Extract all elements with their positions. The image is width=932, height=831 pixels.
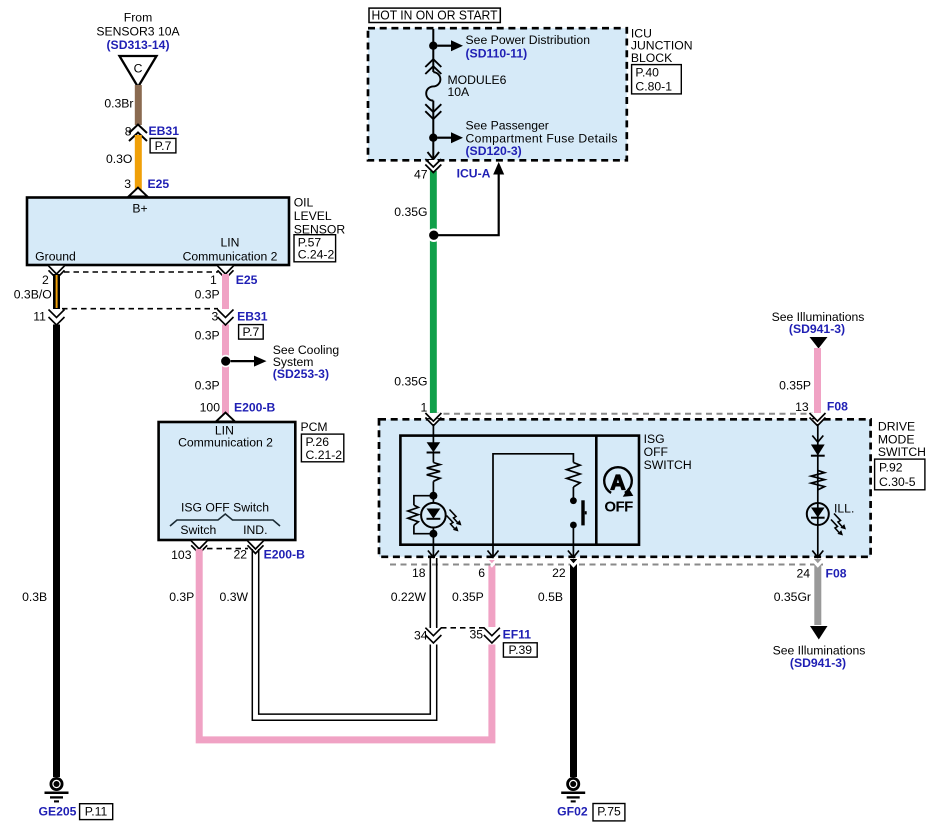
arrow down at ICU exit xyxy=(428,152,440,159)
dashed connector line pins 11-3 xyxy=(62,308,218,310)
wire 0.22W white (pin 18 to conn 34) xyxy=(391,558,437,628)
arrow See Passenger Compartment Fuse Details xyxy=(437,119,617,159)
wire inside ICU block xyxy=(432,29,434,72)
svg-text:GF02: GF02 xyxy=(557,805,588,819)
connector pin 1 chevron (E25) xyxy=(210,266,258,287)
svg-text:(SD120-3): (SD120-3) xyxy=(466,144,522,158)
connector pin 22 chevron xyxy=(234,541,306,562)
connector triangle C xyxy=(120,56,157,87)
branch arrow up into ICU block xyxy=(438,162,504,235)
svg-text:18: 18 xyxy=(412,566,426,580)
wire 0.3Br brown xyxy=(135,85,142,125)
svg-text:6: 6 xyxy=(478,566,485,580)
svg-text:13: 13 xyxy=(795,400,809,414)
svg-text:C.80-1: C.80-1 xyxy=(635,80,672,94)
svg-text:1: 1 xyxy=(210,273,217,287)
label ISG OFF SWITCH xyxy=(644,432,692,472)
ground GE205 xyxy=(39,778,113,819)
svg-text:0.3P: 0.3P xyxy=(169,590,194,604)
svg-text:ISG: ISG xyxy=(644,432,665,446)
connector EF11 pins 34/35 xyxy=(414,627,537,657)
wire 0.3P pink (E25 to PCM) xyxy=(195,274,229,422)
svg-text:P.92: P.92 xyxy=(879,461,903,475)
arrow to See Cooling System xyxy=(195,343,340,393)
svg-text:0.3P: 0.3P xyxy=(195,328,220,342)
gray connector dashed line bottom xyxy=(390,564,823,566)
dashed connector line pins 103-22 xyxy=(207,548,248,550)
svg-text:OFF: OFF xyxy=(644,445,668,459)
pin labels bottom xyxy=(412,566,847,580)
svg-text:OIL: OIL xyxy=(294,196,314,210)
ICU junction block dashed box xyxy=(368,28,627,160)
wire 0.35G green (ICU-A to pin 1) xyxy=(430,161,437,422)
svg-text:ICU-A: ICU-A xyxy=(457,167,491,181)
connector E25 pin 3 xyxy=(124,177,169,197)
wire 0.3P pink routing (pin 103 to pin 6) xyxy=(169,549,496,740)
wire to pin 22 xyxy=(572,528,574,557)
svg-text:See Passenger: See Passenger xyxy=(466,119,549,133)
wire to pin 18 xyxy=(432,534,434,557)
svg-text:47: 47 xyxy=(414,167,428,181)
ground GF02 xyxy=(557,778,625,821)
svg-text:BLOCK: BLOCK xyxy=(631,51,672,65)
wire ILL branch xyxy=(817,424,819,557)
junction dot on pink wire xyxy=(219,355,232,368)
svg-text:C.24-2: C.24-2 xyxy=(298,247,335,261)
svg-text:GE205: GE205 xyxy=(39,805,77,819)
junction dot xyxy=(429,42,437,50)
svg-text:0.3B/O: 0.3B/O xyxy=(14,288,52,302)
resistor R4 (ILL) xyxy=(811,470,824,489)
svg-text:0.35G: 0.35G xyxy=(394,205,427,219)
LED indicator (ISG OFF) xyxy=(421,496,446,534)
diode D2 (ILL) xyxy=(811,445,825,456)
arrow pin 6 xyxy=(488,551,499,558)
svg-text:0.3O: 0.3O xyxy=(106,152,132,166)
svg-text:1: 1 xyxy=(421,401,428,415)
resistor R1 xyxy=(427,463,440,482)
svg-text:LIN: LIN xyxy=(221,236,240,250)
gray connector dashed line top xyxy=(433,413,813,415)
svg-text:103: 103 xyxy=(171,548,192,562)
wire xyxy=(572,487,574,498)
svg-text:P.7: P.7 xyxy=(155,139,172,153)
connector ICU-A pin 47 xyxy=(414,159,491,181)
push switch SW1 xyxy=(570,497,587,528)
svg-text:(SD941-3): (SD941-3) xyxy=(789,322,845,336)
PCM box xyxy=(159,422,296,540)
resistor R3 (switch pull-up) xyxy=(567,463,580,488)
svg-text:0.3B: 0.3B xyxy=(22,590,47,604)
svg-text:0.35P: 0.35P xyxy=(779,379,811,393)
connector F08 pin 13 xyxy=(795,400,848,426)
label PCM xyxy=(301,420,344,462)
fuse MODULE6 10A xyxy=(425,59,506,119)
svg-text:E25: E25 xyxy=(236,273,258,287)
svg-text:(SD941-3): (SD941-3) xyxy=(790,656,846,670)
wire 0.3B black to ground xyxy=(22,308,64,777)
svg-text:E25: E25 xyxy=(148,177,170,191)
label HOT IN ON OR START xyxy=(369,8,500,23)
svg-text:SWITCH: SWITCH xyxy=(644,458,692,472)
wire 0.3W white routing (pin 22 to conn 34) xyxy=(220,549,437,720)
svg-text:0.35P: 0.35P xyxy=(452,590,484,604)
OIL LEVEL SENSOR box xyxy=(27,198,289,266)
svg-text:0.3Br: 0.3Br xyxy=(104,97,133,111)
svg-text:From: From xyxy=(124,11,152,25)
wire pin1 branch inside box xyxy=(432,424,434,443)
svg-text:Ground: Ground xyxy=(35,249,76,263)
svg-text:100: 100 xyxy=(200,401,221,415)
svg-text:2: 2 xyxy=(42,273,49,287)
svg-text:Switch: Switch xyxy=(180,523,216,537)
resistor R2 parallel with LED xyxy=(408,496,434,534)
ISG OFF SWITCH internal box xyxy=(400,436,639,545)
node A (top of LED) xyxy=(429,492,437,500)
svg-text:A: A xyxy=(610,472,625,495)
svg-text:LEVEL: LEVEL xyxy=(294,209,332,223)
arrow pin 18 xyxy=(428,551,439,558)
svg-text:22: 22 xyxy=(234,547,248,561)
wire 0.35Gr gray (pin 24 to illuminations) xyxy=(774,559,823,625)
wire xyxy=(432,453,434,463)
svg-text:EF11: EF11 xyxy=(503,628,532,642)
chevron pin 1 on green xyxy=(425,413,441,426)
LED ILL light arrows xyxy=(831,514,846,536)
icon A-OFF xyxy=(604,467,633,515)
svg-text:ILL.: ILL. xyxy=(834,501,854,515)
svg-text:C: C xyxy=(134,62,143,76)
svg-text:E200-B: E200-B xyxy=(264,547,306,561)
label OIL LEVEL SENSOR xyxy=(294,196,346,262)
svg-text:HOT IN ON OR START: HOT IN ON OR START xyxy=(372,8,498,23)
LED light arrows xyxy=(447,510,462,532)
svg-text:22: 22 xyxy=(552,566,566,580)
wire 0.5B black (pin 22 to ground) xyxy=(538,559,578,777)
dashed connector line pins 2-1 xyxy=(64,271,218,273)
svg-text:0.35G: 0.35G xyxy=(394,375,427,389)
svg-text:(SD110-11): (SD110-11) xyxy=(466,46,528,60)
arrow pin 22 xyxy=(568,551,579,558)
svg-text:SENSOR3 10A: SENSOR3 10A xyxy=(96,25,180,39)
connector E200-B pin 100 xyxy=(200,401,276,422)
connector EB31 pin 8 (double chevron) xyxy=(125,124,179,153)
svg-text:0.3W: 0.3W xyxy=(220,590,249,604)
ILL branch: see illuminations feed xyxy=(772,310,865,349)
svg-text:E200-B: E200-B xyxy=(234,401,276,415)
svg-text:P.75: P.75 xyxy=(597,805,621,819)
diode D1 xyxy=(427,442,441,452)
svg-text:EB31: EB31 xyxy=(237,309,268,323)
svg-text:C.21-2: C.21-2 xyxy=(306,448,343,462)
svg-text:3: 3 xyxy=(212,309,219,323)
svg-text:OFF: OFF xyxy=(604,499,633,516)
svg-text:Communication 2: Communication 2 xyxy=(178,435,273,449)
svg-text:PCM: PCM xyxy=(301,420,328,434)
arrow pin 24 xyxy=(812,551,823,558)
svg-text:10A: 10A xyxy=(448,85,471,99)
label ICU JUNCTION BLOCK xyxy=(631,26,693,93)
svg-text:P.40: P.40 xyxy=(635,66,659,80)
connector pin 103 chevron xyxy=(171,541,207,562)
wire 0.3O orange xyxy=(135,135,142,196)
svg-text:SWITCH: SWITCH xyxy=(878,445,926,459)
node B (bottom of LED) xyxy=(429,530,437,538)
svg-text:F08: F08 xyxy=(827,400,848,414)
svg-text:0.3P: 0.3P xyxy=(195,288,220,302)
LED ILL xyxy=(807,501,855,525)
svg-text:0.22W: 0.22W xyxy=(391,590,427,604)
svg-text:P.11: P.11 xyxy=(85,805,108,819)
svg-text:F08: F08 xyxy=(826,567,847,581)
svg-text:Communication 2: Communication 2 xyxy=(183,249,278,263)
svg-text:24: 24 xyxy=(796,567,810,581)
drive mode switch dashed box xyxy=(379,419,871,557)
connector EB31 pin 3 (double chevron on pink) xyxy=(195,309,268,342)
svg-text:P.39: P.39 xyxy=(509,643,533,657)
svg-text:3: 3 xyxy=(124,177,131,191)
wire 0.35P pink (illum to pin 13) xyxy=(779,348,821,420)
wire xyxy=(432,481,434,495)
svg-text:(SD253-3): (SD253-3) xyxy=(273,367,329,381)
junction dot on green wire xyxy=(427,228,441,242)
svg-text:8: 8 xyxy=(125,125,132,139)
connector pin 11 (double chevron on black wire) xyxy=(33,309,46,323)
junction dot 2 xyxy=(429,134,437,142)
svg-text:34: 34 xyxy=(414,628,428,642)
svg-text:See Power Distribution: See Power Distribution xyxy=(466,33,591,47)
svg-text:C.30-5: C.30-5 xyxy=(879,475,916,489)
wire pin 6 branch xyxy=(493,454,573,557)
svg-text:EB31: EB31 xyxy=(149,124,180,138)
svg-text:B+: B+ xyxy=(132,202,147,216)
svg-text:35: 35 xyxy=(470,628,484,642)
arrow to See Illuminations bottom xyxy=(773,626,866,670)
arrow See Power Distribution xyxy=(437,33,590,60)
label DRIVE MODE SWITCH xyxy=(875,420,926,490)
connector pin 1 of drive mode switch xyxy=(421,401,428,415)
brace split xyxy=(170,514,280,526)
svg-text:0.5B: 0.5B xyxy=(538,590,563,604)
svg-text:IND.: IND. xyxy=(243,523,267,537)
svg-text:11: 11 xyxy=(33,309,46,323)
arrow into ILL branch xyxy=(812,436,823,443)
connector pin 2 chevron xyxy=(42,266,64,287)
svg-text:ISG OFF Switch: ISG OFF Switch xyxy=(181,501,269,515)
svg-text:0.3P: 0.3P xyxy=(195,378,220,392)
svg-text:(SD313-14): (SD313-14) xyxy=(107,38,170,52)
svg-text:0.35Gr: 0.35Gr xyxy=(774,590,811,604)
svg-text:P.7: P.7 xyxy=(243,325,260,339)
node From SENSOR3 label xyxy=(96,11,180,52)
wire 0.3B/O black-orange xyxy=(14,274,60,312)
